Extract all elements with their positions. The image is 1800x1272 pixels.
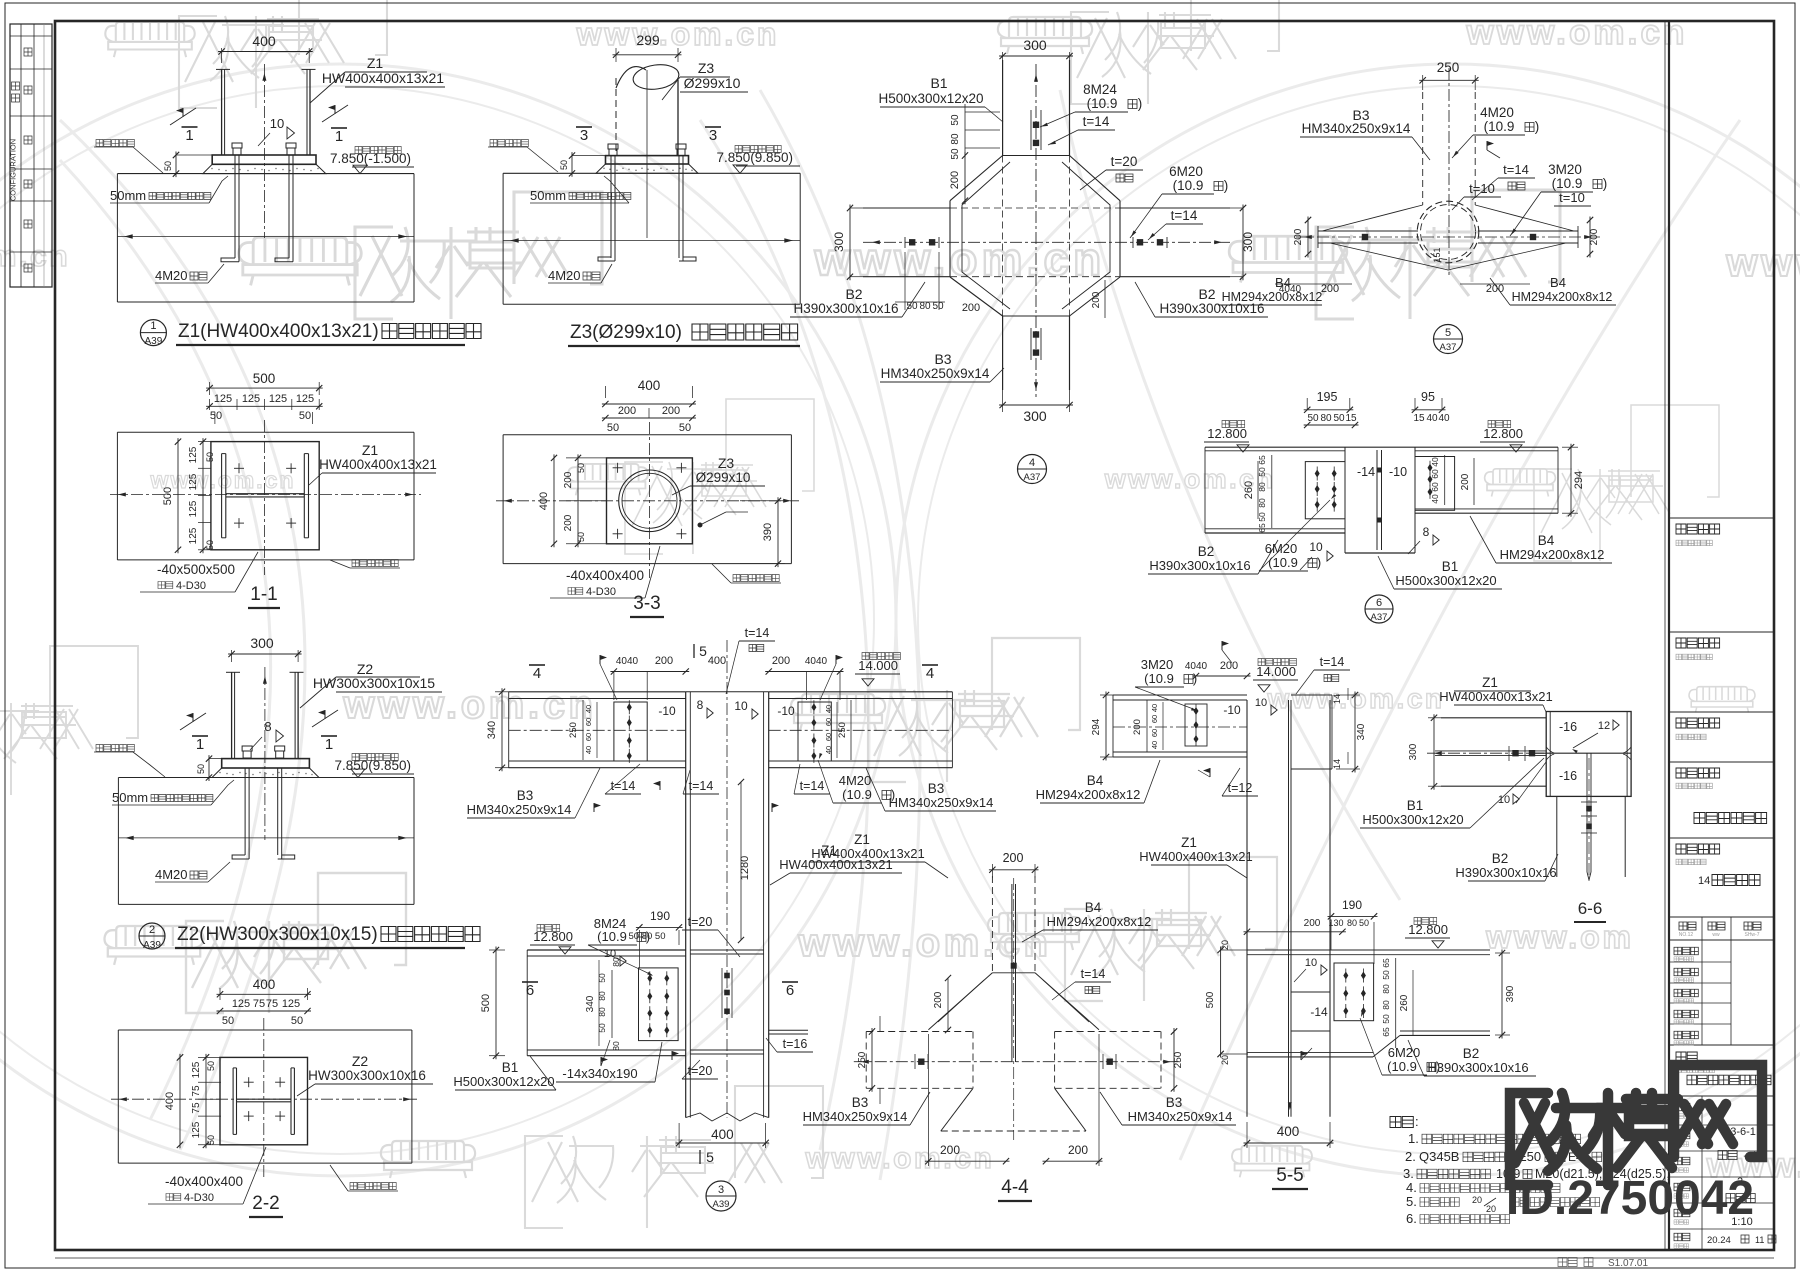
svg-text:-40x400x400: -40x400x400: [165, 1174, 243, 1189]
svg-text:B1: B1: [502, 1060, 519, 1075]
detail6 dim chain right rotated: [1444, 455, 1446, 505]
grout pad hatched Z1: [203, 164, 326, 173]
svg-text:4040: 4040: [805, 656, 828, 667]
svg-text:7.850(9.850): 7.850(9.850): [334, 758, 411, 773]
svg-text:t=14: t=14: [745, 626, 770, 640]
svg-text:1: 1: [150, 320, 156, 332]
svg-text:B2: B2: [1198, 544, 1215, 559]
svg-text:4M20: 4M20: [155, 268, 188, 283]
svg-text:HW400x400x13x21: HW400x400x13x21: [1139, 849, 1252, 864]
detail55 dim 20 500 20 left chain: [1221, 949, 1248, 951]
title block left edge: [1668, 21, 1670, 1250]
svg-text:200: 200: [1304, 918, 1321, 929]
svg-text:80: 80: [597, 1007, 607, 1017]
svg-text:50: 50: [950, 114, 961, 126]
svg-text:80: 80: [611, 1041, 621, 1051]
svg-text:60: 60: [1430, 482, 1440, 492]
svg-text:H390x300x10x16: H390x300x10x16: [1427, 1060, 1528, 1075]
svg-text:40: 40: [1150, 741, 1159, 749]
svg-text:Z1: Z1: [854, 832, 870, 847]
anchor bolt heads Z3: [608, 144, 618, 149]
svg-text:20.24: 20.24: [1707, 1235, 1731, 1246]
svg-text:50: 50: [950, 148, 961, 160]
svg-text:6: 6: [786, 982, 794, 999]
svg-text:14: 14: [1332, 759, 1342, 769]
detail4 center vertical dashed: [1035, 64, 1037, 398]
svg-text:12.800: 12.800: [533, 929, 573, 944]
svg-text:t=20: t=20: [1111, 154, 1138, 169]
svg-text:4.: 4.: [1406, 1180, 1417, 1195]
svg-text:1: 1: [335, 128, 343, 145]
detail3 circle 3/A39: [706, 1181, 736, 1211]
anchor bolt heads Z1: [232, 143, 242, 148]
svg-text:HM340x250x9x14: HM340x250x9x14: [1302, 121, 1411, 136]
detail6 level 12.800 left: [1222, 421, 1245, 428]
svg-text:): ): [1317, 555, 1321, 570]
svg-text:www.om.cn: www.om.cn: [805, 1142, 995, 1175]
svg-text:50: 50: [1359, 918, 1369, 928]
detail55 bolt plate lower: [1334, 963, 1374, 1021]
svg-text:Z2(HW300x300x10x15): Z2(HW300x300x10x15): [177, 924, 378, 945]
svg-text:A37: A37: [1371, 612, 1388, 623]
svg-text:Ø299x10: Ø299x10: [696, 470, 751, 485]
svg-text:125: 125: [188, 446, 199, 463]
svg-text:1: 1: [325, 736, 333, 753]
detail6 left beam B2: [1205, 446, 1345, 448]
detail55 weld flags lower: [1300, 1051, 1302, 1060]
svg-text:B3: B3: [1166, 1095, 1183, 1110]
svg-text:50: 50: [222, 1015, 234, 1027]
svg-text:www.om.cn: www.om.cn: [814, 233, 1106, 285]
detail6 level 12.800 right: [1488, 421, 1511, 428]
svg-text:A37: A37: [1440, 342, 1457, 353]
svg-text:200: 200: [1321, 283, 1339, 295]
svg-text:250: 250: [1437, 60, 1460, 75]
svg-text:-40x500x500: -40x500x500: [157, 562, 235, 577]
svg-text:50mm: 50mm: [112, 790, 148, 805]
svg-text:80: 80: [919, 301, 931, 312]
svg-text:Z1: Z1: [362, 442, 379, 458]
grout pad hatched Z3: [596, 164, 698, 173]
svg-text:HW400x400x13x21: HW400x400x13x21: [319, 457, 437, 472]
watermark giant swoosh curves: [60, 120, 305, 1150]
foundation body Z1: [116, 174, 118, 302]
leader concrete label Z1 left: [96, 140, 134, 147]
svg-text:65: 65: [1257, 455, 1267, 465]
detail44 dim 200 left rotated: [947, 978, 949, 1030]
svg-text:NO.12: NO.12: [1679, 932, 1694, 938]
signature table row marks: [24, 48, 32, 56]
weld flag right of Z1: [322, 105, 348, 122]
svg-text:-14x340x190: -14x340x190: [562, 1066, 637, 1081]
svg-text:A37: A37: [1024, 472, 1041, 483]
svg-text:4M20: 4M20: [548, 268, 581, 283]
svg-text:50: 50: [597, 973, 607, 983]
svg-text:(10.9: (10.9: [1552, 176, 1583, 191]
svg-text:4040: 4040: [1185, 661, 1208, 672]
svg-text:14.000: 14.000: [1256, 664, 1296, 679]
svg-text:10: 10: [1309, 540, 1323, 554]
svg-text:B2: B2: [845, 286, 862, 302]
svg-text:Z1: Z1: [1482, 675, 1498, 690]
detail4 top splice bolts: [1033, 122, 1039, 128]
detail66 mid flange line: [1534, 752, 1631, 754]
svg-text:50: 50: [196, 764, 206, 774]
anchor bolts Z1: [234, 155, 236, 258]
svg-text:B1: B1: [1407, 798, 1424, 813]
svg-text:(10.9: (10.9: [1387, 1059, 1417, 1074]
detail44 dims 200 bottom: [925, 1160, 1010, 1162]
title block section supervise unit: [1669, 711, 1774, 713]
svg-text:-16: -16: [1559, 769, 1577, 783]
svg-text:125: 125: [282, 998, 300, 1010]
svg-text:(10.9: (10.9: [1484, 119, 1515, 134]
svg-text:t=20: t=20: [688, 1064, 713, 1078]
anchor bolts Z2: [244, 768, 246, 855]
section33 centerlines: [649, 422, 651, 578]
svg-text:5-5: 5-5: [1276, 1165, 1303, 1186]
watermark giant circle right: [896, 64, 1800, 1176]
svg-text:B2: B2: [1463, 1046, 1480, 1061]
svg-text:50mm: 50mm: [110, 188, 146, 203]
svg-text:200: 200: [940, 1143, 960, 1157]
svg-text:H500x300x12x20: H500x300x12x20: [1395, 573, 1496, 588]
svg-text:8: 8: [264, 719, 271, 734]
svg-text:Q345B: Q345B: [1419, 1149, 1459, 1164]
svg-text:50: 50: [576, 463, 586, 473]
svg-text:www.: www.: [1725, 241, 1800, 285]
watermark row5 sofa+omw: [105, 926, 204, 965]
detail3 level 14.000: [862, 653, 900, 660]
title block project name value: [1694, 813, 1767, 824]
detail3 column top caps: [686, 691, 769, 693]
watermark row4 sofa titleblock: [1689, 687, 1755, 713]
dim 50 plate Z3: [572, 155, 606, 157]
svg-text:15: 15: [1413, 413, 1425, 424]
detail5 beam bolts: [1362, 234, 1368, 240]
svg-text:3M20: 3M20: [1141, 657, 1174, 672]
detail66 dim 300 left rotated: [1428, 717, 1441, 719]
detail3 lower beam B1: [527, 949, 686, 951]
watermark row4 omw left edge partial: [0, 646, 138, 795]
detail3 level 12.800 lower: [537, 925, 560, 932]
svg-text:300: 300: [1023, 408, 1047, 424]
foundation break arrows Z2: [118, 837, 414, 839]
label concrete found s22: [350, 1183, 396, 1190]
detail4 dim 200 bottom right rotated: [1104, 280, 1106, 318]
svg-text:50: 50: [1333, 413, 1345, 424]
detail4 dim 300 bottom: [1002, 380, 1004, 412]
column Z1 web centerline: [263, 64, 265, 238]
detail3 dim 190: [638, 930, 640, 968]
detail5 left beam lines: [1318, 230, 1418, 232]
section11 left dim chain: [198, 441, 211, 443]
label concrete found section33: [733, 575, 779, 582]
svg-text:H500x300x12x20: H500x300x12x20: [878, 91, 983, 106]
svg-text:40: 40: [1430, 494, 1440, 504]
section22 base plate square: [220, 1057, 308, 1144]
svg-text:H390x300x10x16: H390x300x10x16: [1149, 558, 1250, 573]
detail6 center B1 segment: [1345, 446, 1415, 448]
svg-text:B4: B4: [1550, 275, 1566, 290]
svg-text:4-4: 4-4: [1001, 1177, 1029, 1198]
section11 base plate square: [211, 442, 319, 550]
svg-text:200: 200: [1460, 473, 1471, 490]
detail3 dim 500 left rotated: [489, 949, 505, 951]
svg-text:t=14: t=14: [1320, 655, 1345, 669]
svg-text:7.850(-1.500): 7.850(-1.500): [330, 151, 411, 166]
svg-text:6: 6: [1376, 597, 1382, 609]
detail3 dim 340 left rotated: [495, 691, 509, 693]
svg-text:300: 300: [1241, 232, 1255, 252]
detail5 circle 5/A37: [1434, 325, 1463, 354]
svg-text:200: 200: [563, 514, 574, 531]
personnel row labels: [1674, 947, 1698, 955]
svg-text:200: 200: [1003, 851, 1024, 865]
svg-text:60: 60: [1150, 729, 1159, 737]
svg-text:294: 294: [1091, 718, 1102, 735]
detail55 top beam right stub: [1291, 694, 1332, 696]
detail44 beams dashed left: [866, 1031, 973, 1033]
weld flag left of Z2: [180, 713, 206, 730]
svg-text:5: 5: [699, 643, 707, 659]
svg-text:H500x300x12x20: H500x300x12x20: [453, 1074, 554, 1089]
svg-text:HM294x200x8x12: HM294x200x8x12: [1500, 547, 1605, 562]
detail55 dim 390 right: [1495, 952, 1510, 954]
svg-text:S1.07.01: S1.07.01: [1608, 1258, 1648, 1269]
svg-text:151: 151: [1432, 247, 1442, 262]
svg-text:A39: A39: [145, 336, 163, 347]
svg-text:50: 50: [205, 540, 215, 550]
detail3 dim 400 bottom: [678, 1123, 680, 1148]
svg-text:75: 75: [253, 998, 265, 1010]
svg-text:B3: B3: [517, 788, 534, 803]
section33 dims 200 200: [648, 408, 650, 418]
section33 dim 390 right: [740, 500, 785, 502]
svg-text:2: 2: [149, 924, 155, 936]
detail5 dim 200 left rotated: [1307, 220, 1309, 237]
svg-text:50: 50: [163, 161, 173, 171]
base plate Z1: [212, 155, 316, 164]
svg-text:A39: A39: [143, 940, 161, 951]
svg-text:t=10: t=10: [1559, 190, 1585, 205]
detail4 left beam: [863, 207, 950, 209]
svg-text:HM294x200x8x12: HM294x200x8x12: [1036, 787, 1141, 802]
svg-text:60: 60: [584, 733, 593, 741]
svg-text:): ): [1603, 176, 1608, 191]
title block section partner unit: [1669, 631, 1774, 633]
detail5 dim 250 top: [1422, 75, 1424, 90]
label concrete found section11: [352, 560, 398, 567]
svg-text:200: 200: [949, 171, 961, 189]
detail3 dim 1280 rotated: [740, 782, 742, 940]
section11 centerlines: [263, 420, 265, 575]
svg-text:www.om: www.om: [1485, 919, 1634, 955]
svg-text:200: 200: [772, 655, 790, 667]
svg-text:65: 65: [1381, 958, 1391, 968]
svg-text:-14: -14: [1357, 465, 1375, 479]
detail44 center plate: [1011, 884, 1013, 1062]
dim 50 plate Z2: [209, 758, 222, 760]
svg-text:60: 60: [1430, 469, 1440, 479]
svg-text:40: 40: [584, 746, 593, 754]
detail66 lower column: [1556, 796, 1558, 877]
detail3 column Z1: [685, 692, 687, 1118]
svg-text:80: 80: [1257, 482, 1267, 492]
detail3 weld flags top beams: [599, 655, 601, 664]
svg-text:50: 50: [1307, 413, 1319, 424]
svg-text:H390x300x10x16: H390x300x10x16: [793, 301, 898, 316]
svg-text:4-D30: 4-D30: [176, 580, 206, 592]
svg-text:50: 50: [576, 532, 586, 542]
svg-text:t=10: t=10: [1469, 181, 1495, 196]
svg-text:8M24: 8M24: [1083, 82, 1117, 97]
detail4 dim 200 left upper: [964, 152, 966, 204]
foundation break arrows Z1: [117, 236, 414, 238]
svg-text:200: 200: [1293, 228, 1304, 245]
svg-text:12.800: 12.800: [1483, 426, 1523, 441]
title block drawing-name value: [1687, 1075, 1771, 1085]
svg-text:50: 50: [607, 422, 619, 434]
foundation top line Z1: [117, 173, 414, 175]
svg-text:10: 10: [1255, 697, 1267, 709]
svg-text:6-6: 6-6: [1578, 899, 1603, 918]
foundation Z2: [118, 777, 414, 779]
svg-text:10: 10: [270, 116, 284, 131]
svg-text:125: 125: [269, 393, 287, 405]
watermark row3 sofa+omw right: [1485, 469, 1556, 497]
svg-text:6M20: 6M20: [1265, 541, 1298, 556]
svg-text:400: 400: [253, 977, 276, 992]
title circle 1/A39: [140, 320, 166, 346]
title block section project name: [1669, 761, 1774, 763]
svg-text:190: 190: [650, 909, 670, 923]
svg-text:60: 60: [584, 718, 593, 726]
svg-text:20: 20: [1472, 1195, 1482, 1205]
detail4 bottom beam flanges: [1002, 316, 1004, 390]
svg-text:50: 50: [206, 1061, 216, 1071]
svg-text:40: 40: [584, 705, 593, 713]
section11 anchor holes: [234, 467, 244, 469]
title block bottom table: [1669, 1095, 1774, 1097]
detail44 dim 250 right rotated: [1173, 1028, 1175, 1092]
detail4 dims bottom left chain: [904, 252, 906, 310]
svg-text:50mm: 50mm: [530, 188, 566, 203]
section22 foundation strip: [118, 1029, 412, 1031]
detail55 column: [1246, 700, 1248, 1117]
leader concrete label Z3 left: [490, 140, 528, 147]
svg-text:130: 130: [1328, 918, 1343, 928]
watermark row2 sofa+omw big: [239, 237, 361, 285]
svg-text:50: 50: [299, 410, 311, 422]
svg-text:200: 200: [1589, 228, 1600, 245]
svg-text:4-D30: 4-D30: [586, 586, 616, 598]
svg-text:250: 250: [1173, 1051, 1184, 1068]
svg-text:t=14: t=14: [1081, 967, 1106, 981]
svg-text:1: 1: [185, 127, 193, 144]
svg-text:5.: 5.: [1406, 1194, 1417, 1209]
svg-text:Z3: Z3: [698, 60, 715, 76]
svg-text:B2: B2: [1198, 286, 1215, 302]
svg-text:3: 3: [580, 127, 588, 144]
svg-text:50: 50: [679, 422, 691, 434]
svg-text:60: 60: [1150, 715, 1159, 723]
detail3 top dims left 4040 200: [610, 671, 689, 673]
detail6 bolts right 1x3: [1428, 464, 1433, 472]
svg-text:1-1: 1-1: [250, 584, 277, 605]
svg-text:125: 125: [296, 393, 314, 405]
base plate Z2: [222, 759, 310, 768]
anchor bolt heads Z2: [242, 746, 252, 751]
svg-text:B4: B4: [1275, 275, 1291, 290]
svg-text:3M20: 3M20: [1548, 162, 1582, 177]
svg-text:7.850(9.850): 7.850(9.850): [716, 150, 793, 165]
section22 anchor holes: [244, 1081, 254, 1083]
svg-text:HM294x200x8x12: HM294x200x8x12: [1047, 914, 1152, 929]
svg-text:14: 14: [1698, 875, 1710, 887]
svg-text:t=16: t=16: [783, 1037, 808, 1051]
section33 dim 400 left rotated: [553, 454, 555, 547]
svg-text:260: 260: [1243, 481, 1255, 499]
svg-text:ww: ww: [1712, 932, 1720, 938]
detail Z1 dim 400 top: [221, 48, 223, 63]
title block bottom labels: [1674, 1103, 1690, 1111]
svg-text:H500x300x12x20: H500x300x12x20: [1362, 812, 1463, 827]
section22 centerlines: [263, 1018, 265, 1178]
svg-text:80: 80: [1381, 1000, 1391, 1010]
watermark row1 sofa+omw: [105, 22, 194, 57]
svg-text:50: 50: [906, 301, 918, 312]
detail5 gusset slopes: [1322, 205, 1423, 231]
svg-text:10: 10: [734, 699, 748, 713]
svg-text:200: 200: [1091, 291, 1102, 308]
big watermark OMW logo text: [1510, 1093, 1600, 1185]
foundation break arrows Z3: [503, 240, 800, 242]
ground level mark Z1 right: [355, 147, 401, 154]
svg-text:200: 200: [1068, 1143, 1088, 1157]
svg-text:Z1(HW400x400x13x21): Z1(HW400x400x13x21): [178, 321, 379, 342]
detail3 lower bolts 2x4: [647, 974, 652, 982]
section11 dim 500 top: [209, 382, 211, 395]
svg-text:HM340x250x9x14: HM340x250x9x14: [889, 795, 994, 810]
detail4 dim 300 left rotated: [850, 207, 863, 209]
section22 dim 400 left rotated: [179, 1054, 181, 1148]
svg-text:10: 10: [1305, 957, 1317, 969]
svg-text:11: 11: [1755, 1235, 1764, 1245]
svg-text:t=14: t=14: [1171, 208, 1198, 223]
svg-text:65: 65: [1381, 1027, 1391, 1037]
detail4 octagon gusset: [950, 156, 1003, 201]
svg-text:75: 75: [191, 1102, 202, 1114]
svg-text:125: 125: [188, 473, 199, 490]
svg-text:www.om.cn: www.om.cn: [1266, 683, 1444, 714]
svg-text:400: 400: [252, 33, 276, 49]
svg-text:-40x400x400: -40x400x400: [566, 568, 644, 583]
svg-text:400: 400: [638, 378, 661, 393]
svg-text:B3: B3: [934, 351, 951, 367]
detail55 weld flag top: [1221, 641, 1223, 650]
detail6 dim chain left rotated 65 50 80 80 50 65: [1271, 455, 1273, 528]
svg-text:50: 50: [1257, 512, 1267, 522]
svg-text:390: 390: [762, 523, 774, 541]
svg-text:t=12: t=12: [1228, 781, 1253, 795]
svg-text:200: 200: [962, 302, 980, 314]
detail Z3 dim 299 top: [615, 48, 617, 62]
svg-text:500: 500: [1205, 991, 1216, 1008]
detail6 bolts left 2x3: [1315, 470, 1320, 478]
svg-text:(10.9: (10.9: [597, 929, 627, 944]
svg-text:300: 300: [1408, 743, 1419, 760]
